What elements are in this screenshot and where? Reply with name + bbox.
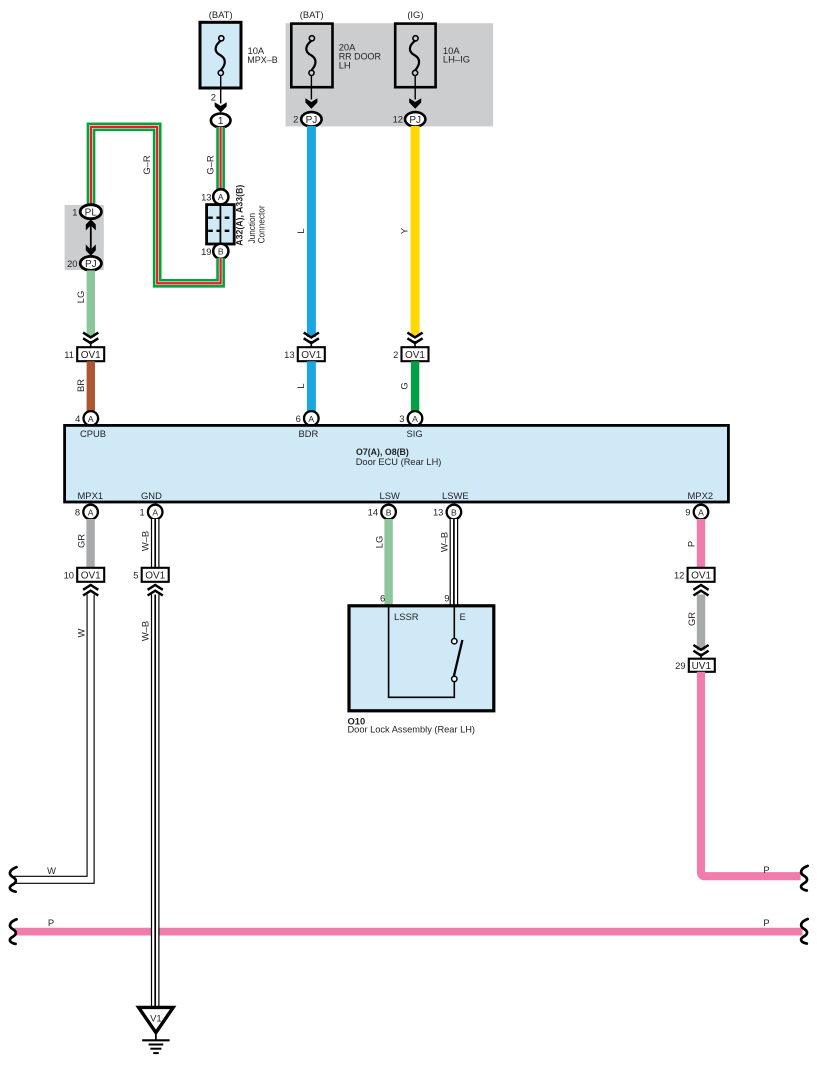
- chevron into OV1 2: [407, 333, 422, 348]
- door lock switch: [452, 639, 463, 682]
- svg-text:1: 1: [218, 116, 224, 127]
- svg-text:MPX1: MPX1: [78, 490, 104, 501]
- svg-text:V1: V1: [150, 1014, 162, 1025]
- wire GR: OV1 12 to UV1 29: [686, 595, 701, 651]
- ECU pin 8 (A) MPX1: [75, 505, 98, 520]
- terminal arrow below F2: [305, 98, 317, 108]
- wire G (green): OV1 to pin 3 SIG: [399, 361, 416, 413]
- wire W-B: pin 13 LSWE to door lock E: [439, 519, 454, 607]
- ECU pin 9 (A) MPX2: [685, 505, 708, 520]
- svg-text:W–B: W–B: [140, 621, 151, 641]
- svg-text:OV1: OV1: [301, 350, 321, 361]
- svg-text:2: 2: [293, 114, 298, 125]
- junction connector body: [207, 185, 267, 246]
- svg-text:GR: GR: [75, 534, 86, 548]
- svg-text:P: P: [763, 917, 769, 928]
- svg-text:W: W: [47, 865, 56, 876]
- svg-text:29: 29: [675, 660, 685, 671]
- svg-text:MPX–B: MPX–B: [247, 54, 277, 65]
- wire LG: PJ to OV1 pin 11: [75, 270, 91, 337]
- svg-text:G–R: G–R: [205, 155, 216, 175]
- chevron below OV1 5: [148, 585, 163, 596]
- svg-text:PL: PL: [85, 207, 98, 218]
- ECU pin 1 (A) GND: [139, 505, 162, 520]
- wire W-B: pin 1 GND to OV1 5: [140, 519, 156, 569]
- node PJ (pin 12): [405, 112, 425, 126]
- door lock internal wire E: [453, 606, 455, 639]
- svg-text:OV1: OV1: [81, 571, 101, 582]
- svg-text:G–R: G–R: [141, 155, 152, 175]
- svg-text:L: L: [295, 228, 306, 233]
- connector PL/PJ (gray box): [65, 205, 104, 270]
- svg-text:12: 12: [674, 570, 684, 581]
- node PJ (pin 2): [301, 112, 321, 126]
- connector UV1 pin 29: [675, 659, 715, 672]
- svg-text:W–B: W–B: [439, 532, 450, 552]
- svg-text:12: 12: [393, 114, 403, 125]
- svg-text:Door Lock Assembly (Rear LH): Door Lock Assembly (Rear LH): [348, 724, 476, 735]
- svg-text:SIG: SIG: [407, 428, 423, 439]
- chevron below OV1 10: [83, 585, 98, 596]
- connector OV1 pin 2: [393, 347, 428, 361]
- svg-text:A: A: [698, 507, 704, 517]
- svg-text:PJ: PJ: [409, 115, 421, 126]
- svg-text:9: 9: [685, 507, 690, 518]
- svg-text:GR: GR: [686, 612, 697, 626]
- svg-text:13: 13: [284, 349, 294, 360]
- fuse F3 10A LH-IG: [395, 9, 470, 87]
- fuse F1 10A MPX-B: [200, 9, 278, 88]
- ground V1: [139, 1007, 174, 1053]
- ECU pin 3 (A) SIG: [399, 411, 422, 426]
- svg-text:LG: LG: [75, 291, 86, 304]
- svg-text:6: 6: [296, 413, 301, 424]
- svg-text:20: 20: [67, 258, 77, 269]
- node 1 (ellipse): [211, 114, 231, 128]
- svg-text:P: P: [686, 541, 697, 547]
- junction block (gray box, top): [286, 23, 494, 126]
- break symbol right (P): [801, 866, 808, 891]
- svg-text:8: 8: [75, 507, 80, 518]
- svg-text:CPUB: CPUB: [80, 428, 106, 439]
- svg-text:E: E: [460, 611, 466, 622]
- wire L (blue): PJ 2 to OV1 13: [295, 126, 312, 337]
- door lock caption: [348, 716, 476, 735]
- svg-text:11: 11: [64, 349, 74, 360]
- fuse F2 20A RR DOOR LH: [291, 9, 381, 87]
- svg-text:LH–IG: LH–IG: [443, 54, 470, 65]
- svg-text:6: 6: [380, 593, 385, 604]
- junction connector pin B: [201, 244, 228, 259]
- svg-text:P: P: [48, 917, 54, 928]
- svg-text:L: L: [295, 383, 306, 388]
- svg-text:4: 4: [75, 413, 80, 424]
- svg-text:5: 5: [133, 570, 138, 581]
- wire G-R: node 1 to junction A: [205, 127, 221, 190]
- chevron below OV1 12: [693, 585, 708, 596]
- break symbol left (W): [10, 867, 17, 892]
- connector pin PL (1): [72, 205, 101, 219]
- svg-text:A: A: [412, 414, 418, 424]
- wire LG: pin 14 LSW to door lock LSSR: [374, 519, 389, 607]
- svg-text:3: 3: [399, 413, 404, 424]
- chevron above UV1 29: [693, 645, 708, 659]
- svg-text:2: 2: [211, 92, 216, 103]
- ECU pin 14 (B) LSW: [368, 505, 396, 520]
- connector pin PJ (20): [67, 256, 101, 270]
- svg-text:LSSR: LSSR: [394, 611, 419, 622]
- ECU pin 13 (B) LSWE: [433, 505, 461, 520]
- svg-text:A: A: [308, 414, 314, 424]
- door lock assembly O10 box: [349, 606, 494, 711]
- svg-text:UV1: UV1: [692, 661, 712, 672]
- svg-text:A: A: [88, 507, 94, 517]
- svg-text:(BAT): (BAT): [300, 9, 324, 20]
- wire GR: pin 8 MPX1 to OV1 10: [75, 519, 90, 569]
- svg-text:W–B: W–B: [140, 531, 151, 551]
- svg-text:10: 10: [64, 570, 74, 581]
- ECU pin 6 (A) BDR: [296, 411, 319, 426]
- svg-text:W: W: [75, 628, 86, 637]
- svg-text:A: A: [218, 192, 224, 202]
- wire: fuse F3 lead: [393, 76, 416, 125]
- svg-text:OV1: OV1: [405, 350, 425, 361]
- svg-text:13: 13: [201, 191, 211, 202]
- svg-text:Door ECU (Rear LH): Door ECU (Rear LH): [356, 456, 442, 467]
- connector OV1 pin 12: [674, 568, 715, 582]
- wire P: pin 9 MPX2 to OV1 12: [686, 519, 701, 569]
- wire: fuse F2 lead: [293, 76, 311, 125]
- svg-text:Connector: Connector: [255, 205, 266, 243]
- svg-text:Y: Y: [399, 227, 410, 234]
- connector OV1 pin 5: [133, 568, 168, 582]
- wire: fuse F1 lead: [211, 76, 221, 104]
- svg-text:LH: LH: [339, 59, 351, 70]
- connector OV1 pin 10: [64, 568, 105, 582]
- svg-text:B: B: [451, 507, 457, 517]
- wire Y (yellow): PJ 12 to OV1 2: [399, 126, 416, 337]
- junction connector A32(A),A33(B) : pin A: [201, 189, 228, 204]
- ECU pin 4 (A) CPUB: [75, 411, 98, 426]
- svg-text:14: 14: [368, 507, 378, 518]
- svg-text:A: A: [152, 507, 158, 517]
- connector OV1 pin 13: [284, 347, 325, 361]
- svg-text:1: 1: [139, 507, 144, 518]
- svg-text:A32(A), A33(B): A32(A), A33(B): [234, 185, 245, 246]
- wire G-R: junction B loop to connector PL: [91, 127, 221, 283]
- svg-text:G: G: [399, 382, 410, 389]
- wire W: OV1 10 to left edge (white wire): [14, 595, 91, 880]
- svg-text:9: 9: [444, 593, 449, 604]
- wire L: OV1 to pin 6 BDR: [295, 361, 312, 413]
- svg-text:B: B: [218, 247, 224, 257]
- svg-text:LSW: LSW: [380, 490, 400, 501]
- chevron into OV1 11: [83, 333, 98, 348]
- svg-text:BR: BR: [75, 379, 86, 392]
- double arrow between PL and PJ: [86, 219, 96, 256]
- svg-text:(BAT): (BAT): [209, 9, 233, 20]
- connector OV1 pin 11: [64, 347, 104, 361]
- svg-text:OV1: OV1: [145, 571, 165, 582]
- svg-text:PJ: PJ: [306, 115, 318, 126]
- svg-text:1: 1: [72, 206, 77, 217]
- break symbol left (P bus): [10, 919, 17, 944]
- svg-text:LG: LG: [374, 536, 385, 549]
- wire W-B: OV1 5 to ground V1: [140, 595, 156, 1008]
- svg-text:13: 13: [433, 507, 443, 518]
- wire BR: OV1 to pin 4 CPUB: [75, 361, 91, 413]
- wire P: full-width bus: [15, 917, 803, 932]
- svg-text:A: A: [88, 414, 94, 424]
- chevron into OV1 13: [304, 333, 319, 348]
- ECU O7(A),O8(B) Door ECU (Rear LH): [65, 425, 729, 502]
- svg-text:OV1: OV1: [691, 571, 711, 582]
- terminal arrow below F3: [409, 98, 421, 108]
- svg-text:BDR: BDR: [299, 428, 319, 439]
- svg-text:2: 2: [393, 349, 398, 360]
- wire P: UV1 29 down and right to edge: [701, 672, 801, 876]
- svg-text:19: 19: [201, 246, 211, 257]
- svg-text:LSWE: LSWE: [442, 490, 469, 501]
- terminal arrow below F1: [215, 102, 227, 112]
- svg-text:B: B: [386, 507, 392, 517]
- svg-text:(IG): (IG): [407, 9, 423, 20]
- svg-text:GND: GND: [141, 490, 162, 501]
- svg-text:PJ: PJ: [85, 259, 97, 270]
- svg-text:MPX2: MPX2: [688, 490, 714, 501]
- svg-text:P: P: [763, 864, 769, 875]
- svg-text:OV1: OV1: [81, 350, 101, 361]
- break symbol right (P bus): [801, 919, 808, 944]
- door lock internal wire LSSR: [389, 606, 455, 698]
